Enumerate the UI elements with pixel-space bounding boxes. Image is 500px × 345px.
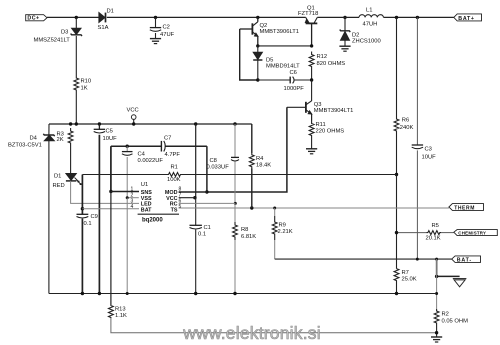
wire Q2 base loop [240,29,258,80]
junction rail/C5 line [98,292,101,295]
wire SNS to R13 [110,192,112,306]
wire R11 to ground [311,139,313,149]
U1 underline [138,213,179,215]
wire Q2 collector to Q1 base [258,45,312,47]
diode D5 [253,46,262,80]
junction D2 [343,16,346,19]
junction R10 rail [75,122,78,125]
junction C5 rail [98,122,101,125]
resistor R3 [68,128,73,146]
wire VSS pin2 [127,197,139,199]
wire top rail (DC+ to Q1) [47,16,306,18]
transistor Q1 [305,17,317,46]
capacitor C9 [77,214,89,218]
junction R9/TS [273,207,276,210]
capacitor C7 [161,141,165,152]
svg-text:0.0022UF: 0.0022UF [138,158,164,164]
capacitor C2 [150,28,161,32]
wire C7 to MOD [206,146,208,192]
wire C2 to ground [155,33,157,39]
svg-text:BAT-: BAT- [457,258,472,264]
svg-text:5: 5 [179,204,182,210]
svg-text:BZT03-C5V1: BZT03-C5V1 [8,143,42,149]
svg-text:C1: C1 [204,225,211,231]
net tag BAT- [452,256,481,264]
ground (C2) [150,39,161,44]
wire C3 to BAT- [416,150,418,259]
svg-text:C9: C9 [91,214,98,220]
svg-text:L1: L1 [366,8,372,14]
svg-text:CHEMISTRY: CHEMISTRY [458,231,486,236]
svg-text:MMSZ5241LT: MMSZ5241LT [34,38,71,44]
svg-text:C8: C8 [210,158,217,164]
transistor Q3 [287,101,312,114]
wire SNS line upper [110,146,112,191]
junction VCC pin rail [194,122,197,125]
capacitor C4 [122,146,133,155]
wire VCC rail [49,123,252,125]
wire rail to R4 [251,124,253,153]
junction Q1 base [310,44,313,47]
svg-text:ZHCS1000: ZHCS1000 [352,38,381,44]
wire rail to C8 [234,124,236,157]
svg-text:4: 4 [131,204,134,210]
wire R4 to TS [251,169,253,209]
svg-text:U1: U1 [141,182,148,188]
svg-text:DC+: DC+ [27,16,39,22]
junction C2 [154,16,157,19]
power symbol VCC [131,115,136,124]
svg-text:0.1: 0.1 [198,232,206,238]
svg-text:www.elektronik.si: www.elektronik.si [182,323,321,343]
resistor R11 [309,121,314,139]
svg-text:MMBT3906LT1: MMBT3906LT1 [260,29,300,35]
wire RC pin6 [179,202,236,204]
wire rail to R6 [396,17,398,115]
wire rail to C3 [416,17,418,145]
wire R12 to node [311,70,313,81]
svg-text:R8: R8 [241,227,248,233]
svg-text:18.4K: 18.4K [256,163,271,169]
junction VSS pin [126,196,129,199]
svg-text:RED: RED [53,183,65,189]
wire C1 to rail [195,230,197,294]
svg-text:MMBT3904LT1: MMBT3904LT1 [314,108,354,114]
wire D3 to R10 [75,36,77,75]
svg-text:D3: D3 [61,30,68,36]
wire R2 to ground [436,325,438,337]
svg-text:D1: D1 [107,9,114,15]
wire R6 node to R7 [396,175,398,269]
svg-text:220 OHMS: 220 OHMS [316,128,345,134]
net tag THERM [449,204,484,212]
junction R6/R1 [395,173,398,176]
svg-text:THERM: THERM [454,205,475,211]
resistor R1 [163,173,186,177]
svg-text:R9: R9 [279,222,286,228]
svg-text:FZT718: FZT718 [298,11,318,17]
junction D5 cathode [256,78,259,81]
junction VCC pin7 [193,196,196,199]
ground (R11) [306,149,317,154]
svg-text:10UF: 10UF [103,136,118,142]
svg-text:6.81K: 6.81K [241,234,256,240]
junction rail/C1 line [194,292,197,295]
wire MOD pin8 [179,191,207,193]
svg-text:4.7PF: 4.7PF [165,152,181,158]
wire VCC pin line [195,124,197,198]
wire LED to pin3 [71,181,139,204]
net tag BAT+ [454,14,482,22]
svg-text:R10: R10 [81,78,92,84]
wire to gnd triangle [437,259,460,276]
junction MOD [205,190,208,193]
junction rail/C9 line [81,292,84,295]
wire D4 to bottom rail [48,141,50,294]
junction gnd stub [435,275,438,278]
svg-text:C4: C4 [138,151,146,157]
svg-text:TS: TS [171,207,178,213]
resistor R9 [272,216,277,240]
svg-text:1000PF: 1000PF [284,86,305,92]
resistor R7 [394,268,399,281]
svg-text:820 OHMS: 820 OHMS [317,61,346,67]
wire R10 to VCC rail [75,93,77,124]
junction C3/BAT- [416,258,419,261]
ground (R2) [431,337,442,342]
wire R2 line [436,259,438,309]
junction R4/TS [250,206,253,209]
svg-text:C3: C3 [425,147,432,153]
wire bottom rail [49,293,437,295]
net tag CHEMISTRY [454,230,498,236]
wire R13 to R2 [111,318,437,333]
wire chemistry row [397,232,427,234]
zener D3 [71,28,82,36]
transistor Q2 [240,17,258,46]
svg-text:47UF: 47UF [160,32,175,38]
wire R3 to LED [70,146,72,174]
svg-text:R4: R4 [256,156,264,162]
ground (triangle) [453,279,467,287]
junction SNS [109,190,112,193]
wire D3 branch [75,17,77,28]
wire C7 row [111,145,207,147]
resistor R12 [309,52,314,70]
wire R8 to rail [234,240,236,294]
svg-text:C7: C7 [164,136,171,142]
wire VSS to bottom rail [126,198,128,294]
junction BAT pin wire [81,207,84,210]
junction DC+/D3 [75,16,78,19]
op-amp U1 (bq2000) pins [141,182,178,214]
capacitor C1 [190,225,202,229]
resistor R10 [74,75,79,93]
wire C8 to RC [234,162,236,204]
wire R5 to tag [441,232,454,234]
capacitor C8 [231,157,239,161]
schottky D2 [340,17,351,46]
svg-text:47UH: 47UH [363,22,378,28]
wire L1 to BAT+ [384,16,454,18]
wire VCC pin7 [179,197,196,199]
resistor R5 [426,231,441,235]
junction R12/C6/Q3 [310,78,313,81]
svg-text:R11: R11 [316,122,326,128]
svg-text:2.21K: 2.21K [278,229,293,235]
resistor R8 [233,222,238,240]
junction rail/VSS line [126,292,129,295]
wire R1 row right [186,174,397,176]
svg-text:S1A: S1A [98,25,109,31]
capacitor C5 [94,124,105,133]
capacitor C6 [258,77,312,84]
wire rail to D4 [48,124,50,135]
svg-text:R2: R2 [442,311,449,317]
svg-text:D1: D1 [54,174,61,180]
capacitor C3 [412,145,423,149]
wire BAT- line [275,258,452,260]
svg-text:R13: R13 [115,306,126,312]
svg-text:240K: 240K [400,125,414,131]
junction R5 [395,231,398,234]
wire C2 stub [155,17,157,27]
wire R7 to rail [396,281,398,294]
svg-text:C2: C2 [163,25,170,31]
junction R2/BAT- [435,258,438,261]
led D1 [66,174,81,185]
junction Q2 branch [256,16,259,19]
resistor R13 [109,305,114,318]
svg-text:VCC: VCC [127,108,139,114]
wire Q3 base to MOD [207,107,287,192]
net tag DC+ [26,15,47,22]
resistor R4 [249,153,254,169]
svg-text:0.05 OHM: 0.05 OHM [442,319,469,325]
wire Q3 emitter [311,114,313,121]
diode D1 [99,13,106,23]
junction RC/C8 [234,202,237,205]
svg-text:MMBD914LT: MMBD914LT [266,63,300,69]
junction C8 rail [233,122,236,125]
wire C8 node to R8 [234,203,236,222]
svg-text:1K: 1K [81,86,88,92]
svg-text:2K: 2K [57,137,64,143]
wire BAT cap line [81,175,83,294]
svg-text:10UF: 10UF [422,155,437,161]
junction rail end [435,292,438,295]
junction rail/R7 line [395,292,398,295]
ground (D2) [339,46,350,51]
svg-text:C5: C5 [106,129,113,135]
junction Q2 collector [256,44,259,47]
svg-text:D4: D4 [30,135,38,141]
wire R9 to BAT- [274,240,276,259]
svg-text:R6: R6 [402,117,409,123]
resistor R6 [394,115,399,135]
svg-text:R1: R1 [171,165,178,171]
wire TS/THERM [179,207,449,209]
svg-text:BAT: BAT [141,207,152,213]
wire R6 to node [396,135,398,175]
svg-text:0.1: 0.1 [84,221,92,227]
junction R6 rail [395,16,398,19]
svg-text:BAT+: BAT+ [458,16,474,22]
wire C5 to bottom rail [98,135,100,294]
inductor L1 [359,15,383,18]
svg-text:1.1K: 1.1K [115,313,127,319]
wire R1 row left [82,174,163,176]
svg-text:20.1K: 20.1K [426,235,441,241]
resistor R2 [434,309,439,325]
svg-text:100K: 100K [167,177,181,183]
svg-text:bq2000: bq2000 [142,218,163,224]
junction R3 rail [69,122,72,125]
junction C4 row [126,145,129,148]
wire rail Q1 to L1 [317,16,359,18]
wire to C1 [195,198,197,226]
svg-text:R7: R7 [402,270,409,276]
svg-text:R5: R5 [432,223,439,229]
junction VCC stub [132,122,135,125]
junction C3 rail [416,16,419,19]
wire BAT pin4 [82,208,139,210]
wire C4 to VSS [126,157,128,198]
wire to Q3 collector [311,80,313,101]
svg-text:R12: R12 [317,54,328,60]
svg-text:C6: C6 [290,70,297,76]
junction rail/R8 line [233,292,236,295]
zener D4 [43,134,54,141]
wire TS to R9 [274,208,276,216]
svg-text:25.0K: 25.0K [402,277,417,283]
svg-text:0.033UF: 0.033UF [207,165,230,171]
junction R2/R13 [435,331,438,334]
wire SNS pin1 [111,191,139,193]
